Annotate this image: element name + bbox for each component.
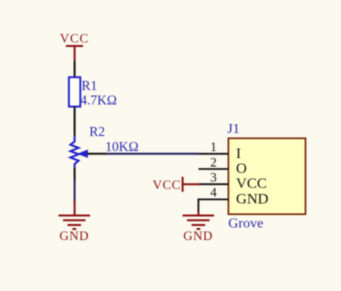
J1 pin 2 line <box>199 168 229 170</box>
svg-text:R1: R1 <box>82 78 98 93</box>
potentiometer R2 wiper arrow <box>78 150 87 157</box>
svg-text:VCC: VCC <box>153 177 181 192</box>
wire R2 wiper to J1 pin 1 <box>106 153 199 155</box>
J1 pin 1 line <box>199 153 229 155</box>
svg-text:Grove: Grove <box>228 217 263 232</box>
svg-text:2: 2 <box>210 154 217 169</box>
svg-text:4.7KΩ: 4.7KΩ <box>80 92 117 107</box>
power port VCC (pin 3) bar symbol <box>183 177 200 192</box>
svg-text:3: 3 <box>210 170 217 185</box>
R2 wiper pin stub <box>87 153 106 155</box>
svg-text:10KΩ: 10KΩ <box>105 139 138 154</box>
svg-text:I: I <box>236 146 241 162</box>
R2 bottom pin stub <box>74 168 76 181</box>
svg-text:R2: R2 <box>89 124 105 139</box>
resistor R1 body <box>69 77 80 106</box>
svg-text:VCC: VCC <box>60 31 89 46</box>
J1 pin 4 line <box>198 199 228 211</box>
svg-text:O: O <box>236 161 247 177</box>
svg-text:1: 1 <box>210 139 217 154</box>
wire VCC to R1 pin 1 <box>74 61 76 77</box>
svg-text:GND: GND <box>59 228 89 243</box>
ground symbol (left) <box>59 201 91 229</box>
ground symbol (right) <box>183 212 215 230</box>
J1 pin 3 line <box>199 183 229 185</box>
svg-text:GND: GND <box>236 191 269 207</box>
power port VCC (top) bar symbol <box>66 46 83 61</box>
svg-text:4: 4 <box>210 185 217 200</box>
svg-text:GND: GND <box>183 228 213 243</box>
potentiometer R2 body (zigzag) <box>70 136 78 168</box>
svg-text:VCC: VCC <box>236 176 267 192</box>
connector J1 body <box>228 138 305 214</box>
wire R1 pin 2 to R2 pin 1 <box>74 107 76 136</box>
svg-text:J1: J1 <box>227 122 239 137</box>
wire R2 to GND <box>74 181 76 201</box>
